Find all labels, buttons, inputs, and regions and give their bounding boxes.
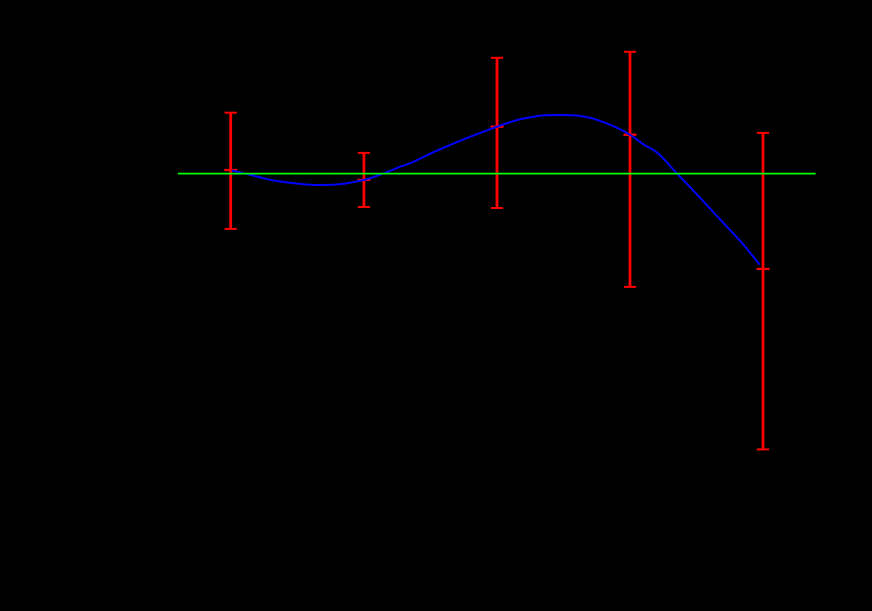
point marker 1 xyxy=(224,169,237,171)
error bar 4 xyxy=(624,52,636,287)
zero reference line xyxy=(178,173,816,175)
error bar 3 xyxy=(491,58,503,208)
point marker 3 xyxy=(491,126,504,128)
error bar 5 xyxy=(757,133,769,450)
point marker 2 xyxy=(357,179,370,181)
point marker 4 xyxy=(624,134,637,136)
fitted spline curve xyxy=(233,115,760,264)
error bar 1 xyxy=(225,113,237,229)
point marker 5 xyxy=(757,268,770,270)
error bar 2 xyxy=(358,153,370,207)
